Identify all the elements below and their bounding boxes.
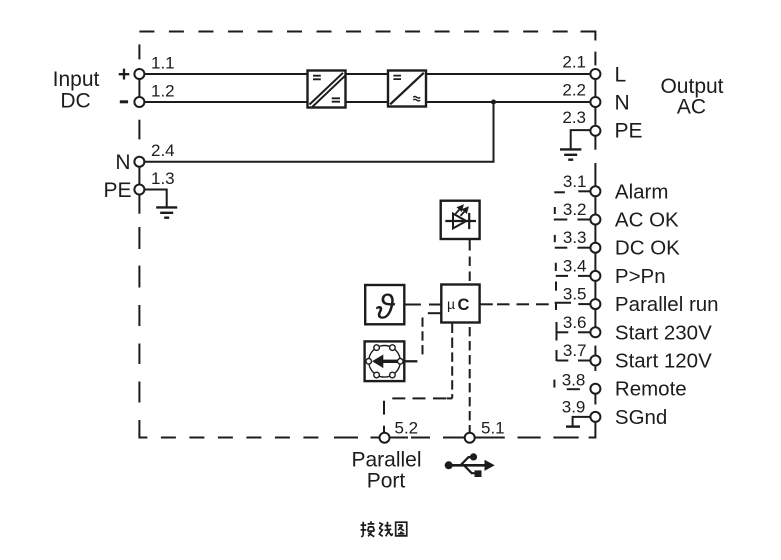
wire N line (input - to output N): [144, 101, 590, 103]
dashed link µC to USB port 5.1: [469, 327, 471, 433]
temperature sensor box B1 (theta): [365, 285, 404, 324]
svg-text:3.5: 3.5: [563, 285, 587, 304]
junction dot on N line: [491, 100, 496, 105]
svg-text:3.2: 3.2: [563, 200, 587, 219]
svg-text:1.1: 1.1: [151, 54, 175, 73]
svg-text:Parallel: Parallel: [351, 449, 421, 472]
terminal 3.8: [590, 384, 600, 394]
svg-text:Parallel run: Parallel run: [615, 293, 719, 316]
ground symbol at output PE 2.3: [560, 130, 590, 160]
svg-text:2.3: 2.3: [562, 108, 586, 127]
dashed link theta B1 to µC: [404, 304, 441, 306]
dashed link switch S1 to µC lower-left pin: [423, 313, 442, 354]
terminal 1.3: [134, 185, 144, 195]
dashed link µC to signal bus (row 3.5): [480, 303, 549, 305]
svg-text:L: L: [615, 64, 627, 87]
svg-text:PE: PE: [615, 120, 643, 143]
PE input earth wire from 1.3: [144, 190, 177, 218]
svg-text:3.6: 3.6: [563, 313, 587, 332]
terminal 3.3: [590, 243, 600, 253]
label - polarity: [120, 100, 128, 103]
svg-text:Output: Output: [660, 75, 723, 98]
svg-text:Port: Port: [367, 470, 406, 493]
svg-text:3.8: 3.8: [562, 370, 586, 389]
svg-text:AC: AC: [677, 96, 706, 119]
svg-text:3.4: 3.4: [563, 256, 587, 275]
svg-text:PE: PE: [103, 179, 131, 202]
svg-text:1.2: 1.2: [151, 82, 175, 101]
svg-text:3.1: 3.1: [563, 172, 587, 191]
svg-text:Start 120V: Start 120V: [615, 350, 712, 373]
terminal 1.2: [134, 97, 144, 107]
USB symbol: [445, 453, 494, 477]
svg-text:N: N: [615, 92, 630, 115]
terminal 3.1: [590, 186, 600, 196]
svg-text:Input: Input: [53, 68, 100, 91]
svg-text:µ: µ: [447, 296, 455, 312]
terminal 3.7: [590, 356, 600, 366]
converter block U2 (DC/AC inverter): [388, 71, 426, 107]
svg-text:SGnd: SGnd: [615, 406, 667, 429]
svg-text:P>Pn: P>Pn: [615, 265, 666, 288]
terminal 2.4: [134, 157, 144, 167]
svg-text:5.1: 5.1: [481, 419, 505, 438]
svg-text:Remote: Remote: [615, 378, 687, 401]
svg-text:1.3: 1.3: [151, 169, 175, 188]
terminal 3.6: [590, 327, 600, 337]
microcontroller box U3 (µC): [441, 285, 479, 323]
terminal 3.5: [590, 299, 600, 309]
signal bus vertical dashes and row links: [554, 191, 591, 389]
svg-text:3.9: 3.9: [562, 397, 586, 416]
dashed link LED D1 to µC: [469, 239, 471, 281]
enclosure dashed border: bottom edge segments: [161, 437, 579, 439]
terminal 1.1: [134, 69, 144, 79]
svg-text:5.2: 5.2: [395, 419, 419, 438]
terminal 2.2: [590, 97, 600, 107]
svg-text:2.1: 2.1: [562, 53, 586, 72]
svg-text:DC OK: DC OK: [615, 237, 680, 260]
wire N input 2.4 to junction: [144, 102, 493, 162]
svg-text:N: N: [115, 151, 130, 174]
caption 接线图 (drawn strokes): [361, 521, 407, 536]
terminal 5.2: [380, 433, 390, 443]
wire L line (input + to output L): [144, 73, 590, 75]
svg-text:+: +: [118, 63, 130, 86]
terminal 3.9: [590, 412, 600, 422]
terminal 2.1: [590, 69, 600, 79]
rotary selector switch S1: [365, 341, 418, 381]
SGnd 3.9 signal-ground wire: [566, 417, 590, 427]
svg-text:AC OK: AC OK: [615, 209, 679, 232]
enclosure dashed border: right edge segments: [589, 52, 596, 438]
terminal 2.3: [590, 126, 600, 136]
terminal 5.1: [465, 433, 475, 443]
svg-text:DC: DC: [60, 90, 90, 113]
dashed link µC to parallel port 5.2: [384, 324, 452, 433]
svg-text:C: C: [458, 296, 470, 314]
svg-text:Start 230V: Start 230V: [615, 321, 712, 344]
svg-text:3.7: 3.7: [563, 341, 587, 360]
svg-text:2.2: 2.2: [562, 81, 586, 100]
enclosure dashed border: left edge segments: [139, 44, 147, 437]
svg-text:ϑ: ϑ: [376, 289, 396, 327]
svg-text:3.3: 3.3: [563, 228, 587, 247]
converter block U1 (DC/DC): [308, 71, 346, 108]
enclosure dashed border: top edge: [139, 32, 595, 41]
LED indicator box D1: [441, 201, 480, 239]
svg-text:Alarm: Alarm: [615, 180, 669, 203]
terminal 3.4: [590, 271, 600, 281]
terminal 3.2: [590, 215, 600, 225]
svg-text:2.4: 2.4: [151, 141, 175, 160]
